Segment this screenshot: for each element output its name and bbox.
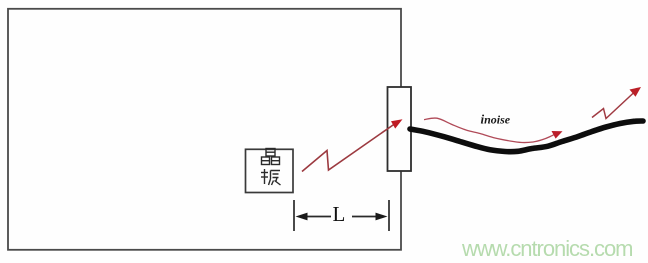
crystal box	[246, 149, 294, 192]
inoise current curve (thin red)	[424, 118, 563, 143]
dimension arrow left	[296, 213, 332, 221]
red zigzag arrow from crystal to connector	[302, 119, 403, 171]
wire: dimension extension tick right (connector edge)	[388, 200, 390, 231]
connector J1 (board edge connector)	[388, 87, 412, 171]
label 振 (crystal char bottom)	[261, 169, 281, 185]
red zigzag arrow at cable end	[592, 87, 641, 119]
label 晶 (crystal char top)	[262, 149, 280, 165]
svg-text:inoise: inoise	[481, 112, 511, 127]
wire: dimension extension tick left (crystal edge)	[293, 200, 295, 231]
PCB board outline	[8, 9, 401, 250]
cable: thick black wire leaving connector	[410, 121, 643, 152]
svg-text:L: L	[333, 202, 346, 226]
dimension arrow right	[352, 213, 388, 221]
svg-text:www.cntronics.com: www.cntronics.com	[461, 236, 632, 261]
